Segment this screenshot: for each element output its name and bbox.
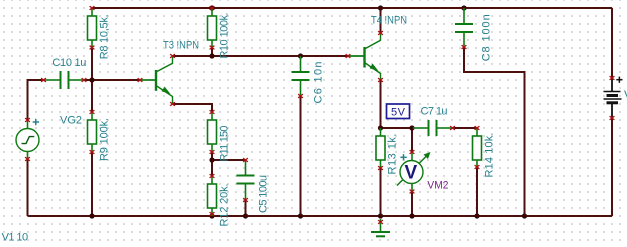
wire T3 emitter to R11 [173, 104, 213, 112]
wire C7 to R14 [453, 127, 478, 129]
junction C6 tap [298, 53, 303, 58]
junction T4 collector top rail [378, 5, 383, 10]
svg-text:R12 20k.: R12 20k. [219, 184, 231, 227]
capacitor C8 [455, 8, 473, 48]
svg-text:C8 100n: C8 100n [481, 14, 493, 61]
wire right rail to battery top [611, 8, 613, 78]
transistor T4 [348, 33, 381, 80]
wire VM2 bottom [411, 192, 413, 216]
svg-text:V: V [405, 163, 418, 184]
wire VG2 bottom to ground rail [27, 160, 29, 216]
wire R9 bottom to ground rail [91, 152, 93, 216]
svg-text:R8 10,5k.: R8 10,5k. [99, 14, 111, 59]
wire C8 bottom to rail [464, 48, 525, 216]
svg-text:5V: 5V [391, 106, 406, 118]
wire R10 bottom [211, 48, 213, 56]
wire R11 bottom to node B [211, 152, 213, 160]
battery V1 [604, 78, 622, 118]
svg-text:R13 1k.: R13 1k. [387, 134, 399, 175]
junction VM2 ground rail [409, 213, 414, 218]
junction R9 ground rail [89, 213, 94, 218]
wire node B to R12 [211, 160, 213, 176]
wire T4 collector top [380, 8, 382, 33]
resistor R11 [208, 110, 217, 154]
wire node C to C7 [381, 127, 413, 129]
svg-text:V1 10: V1 10 [2, 231, 29, 243]
svg-text:R11 150: R11 150 [219, 126, 231, 162]
wire node A to T3 base [92, 79, 140, 81]
wire node B to C5 [212, 159, 246, 161]
svg-text:C6 10n: C6 10n [313, 62, 325, 104]
wire input left [28, 80, 44, 120]
svg-text:R14 10k.: R14 10k. [484, 133, 496, 178]
ground [371, 219, 390, 236]
svg-text:T4 !NPN: T4 !NPN [371, 14, 407, 26]
junction R12 ground rail [209, 213, 214, 218]
svg-text:C7 1u: C7 1u [421, 106, 448, 118]
resistor R14 [473, 126, 482, 169]
junction node B R11/R12/C5 [209, 157, 214, 162]
junction C8 branch ground rail [522, 213, 527, 218]
wire node A to R9 [91, 80, 93, 112]
junction node C / VM2 / C7 [409, 125, 414, 130]
wire T3 collector node [173, 55, 349, 57]
svg-text:R9 100k.: R9 100k. [99, 118, 111, 161]
resistor R9 [88, 110, 97, 154]
junction T3 collector / R10 [209, 53, 214, 58]
label 5V box [387, 104, 410, 119]
svg-text:R10 100k.: R10 100k. [219, 13, 231, 59]
voltmeter VM2 [397, 150, 431, 193]
resistor R12 [208, 174, 217, 216]
capacitor C5 [237, 160, 255, 200]
svg-text:VG2: VG2 [60, 115, 82, 127]
junction C6 ground rail [298, 213, 303, 218]
wire C5 bottom [245, 200, 247, 216]
wire top rail [92, 7, 612, 9]
junction node C emitter/R13 [378, 125, 383, 130]
wire R8 bottom to node A [91, 48, 93, 80]
junction C5 ground rail [243, 213, 248, 218]
capacitor C10 [44, 71, 84, 89]
wire R13 bottom [380, 168, 382, 216]
junction R13/ground symbol rail [378, 213, 383, 218]
svg-text:VM2: VM2 [427, 180, 448, 192]
wire bottom rail [28, 215, 613, 217]
svg-text:C5 100u: C5 100u [258, 175, 270, 213]
wire T4 emitter to node C [380, 80, 382, 128]
svg-text:T3 !NPN: T3 !NPN [163, 39, 199, 51]
wire R14 bottom [476, 168, 478, 216]
wire C10 to node A [84, 79, 92, 81]
plus battery [616, 77, 622, 83]
svg-text:C10 1u: C10 1u [52, 57, 86, 69]
junction C8 top rail [461, 5, 466, 10]
wire C6 bottom [300, 96, 302, 216]
wire VM2 top [411, 128, 413, 152]
resistor R8 [88, 6, 97, 49]
source VG2 [16, 120, 39, 160]
capacitor C6 [292, 56, 310, 96]
junction R10 top rail [209, 5, 214, 10]
resistor R10 [208, 6, 217, 49]
junction node A input/base [89, 77, 94, 82]
junction R14 ground rail [474, 213, 479, 218]
capacitor C7 [413, 120, 452, 136]
wire battery bottom to bottom rail [611, 118, 613, 216]
plus VG2 [33, 119, 39, 125]
plus VM2 [400, 154, 406, 160]
transistor T3 [140, 56, 173, 104]
resistor R13 [376, 128, 385, 170]
